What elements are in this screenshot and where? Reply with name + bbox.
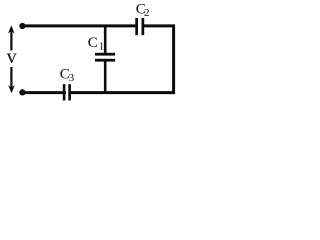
wire top from node A to C2 left plate (22, 24, 137, 27)
capacitor C2 plates (135, 18, 138, 35)
svg-text:1: 1 (99, 41, 105, 53)
voltage arrow up (top half of v marker) (10, 31, 12, 51)
wire C1 branch upper segment (104, 26, 107, 54)
svg-text:3: 3 (69, 72, 75, 84)
svg-text:2: 2 (144, 7, 150, 19)
svg-text:v: v (7, 46, 17, 68)
capacitor C1 plates (95, 53, 115, 56)
node A (top terminal dot) (19, 23, 25, 29)
wire from C2 right plate along top, down right side, along bottom to C3 right plate (70, 26, 174, 93)
wire bottom-left from C3 left plate to node B (22, 91, 66, 94)
node B (bottom terminal dot) (19, 89, 25, 95)
svg-text:C: C (88, 35, 98, 51)
capacitor C3 plates (63, 84, 66, 100)
voltage arrow down (bottom half of v marker) (10, 67, 12, 88)
wire C1 branch lower segment (104, 61, 107, 93)
